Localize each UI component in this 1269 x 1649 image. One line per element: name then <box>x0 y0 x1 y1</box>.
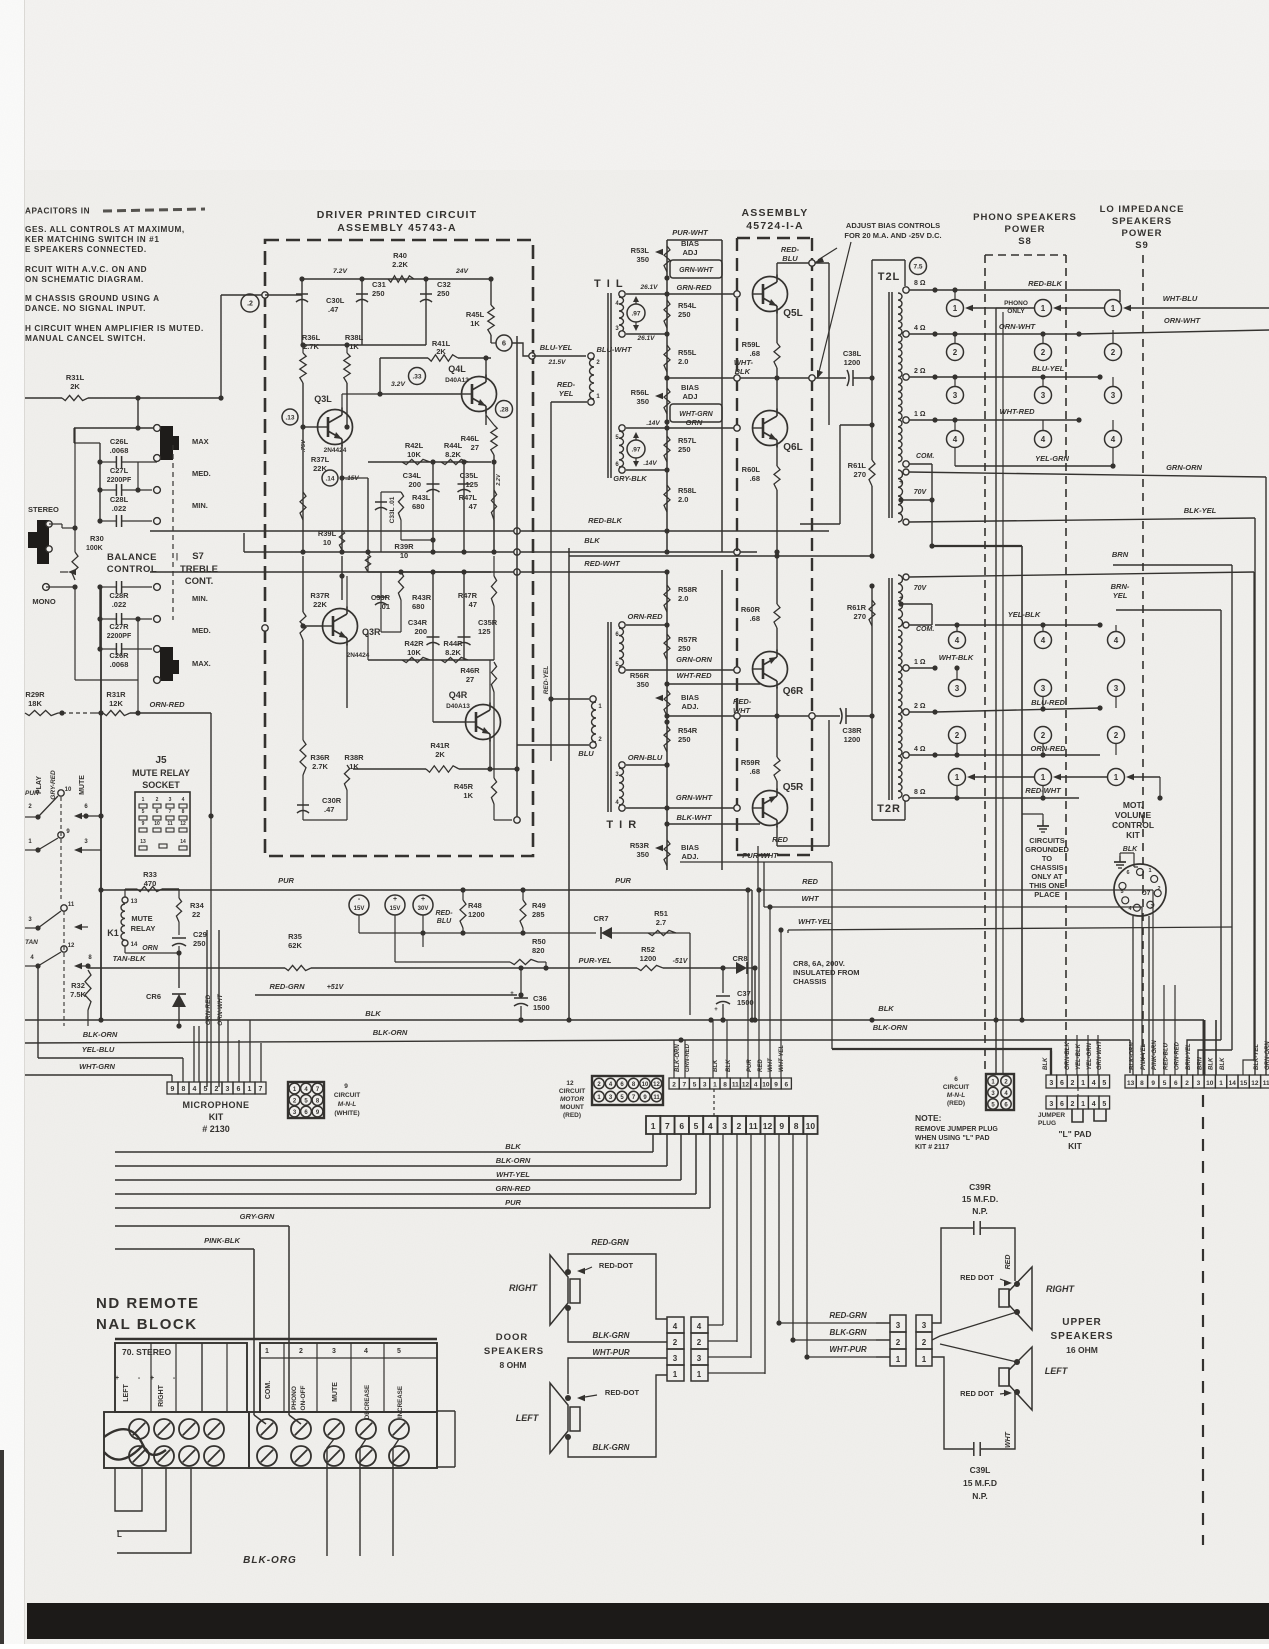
svg-text:C34R: C34R <box>408 618 428 627</box>
svg-text:RED-DOT: RED-DOT <box>599 1261 634 1270</box>
wire Q4L collector to 24V rail <box>485 358 487 377</box>
dashed link L-pad <box>1077 1088 1079 1096</box>
svg-text:RED-GRN: RED-GRN <box>270 982 306 991</box>
transistor Q6L <box>753 411 788 446</box>
svg-text:RED-BLK: RED-BLK <box>588 516 622 525</box>
svg-text:C27L: C27L <box>110 466 129 475</box>
svg-text:COM.: COM. <box>916 626 934 633</box>
svg-text:4: 4 <box>673 1322 678 1331</box>
svg-text:+: + <box>714 1007 718 1013</box>
svg-text:8: 8 <box>182 1086 186 1093</box>
svg-text:15 M.F.D: 15 M.F.D <box>963 1478 997 1488</box>
svg-text:R54R: R54R <box>678 726 698 735</box>
svg-text:ADJ.: ADJ. <box>681 852 698 861</box>
svg-text:RED DOT: RED DOT <box>960 1389 994 1398</box>
svg-text:5: 5 <box>1102 1101 1106 1108</box>
wire R61L bypass <box>869 422 874 427</box>
svg-text:3: 3 <box>697 1354 702 1363</box>
svg-text:R42L: R42L <box>405 441 424 450</box>
wire BLK thick to pin 10 <box>1203 1020 1206 1075</box>
svg-text:SOCKET: SOCKET <box>142 780 180 790</box>
svg-text:BLK-GRN: BLK-GRN <box>593 1331 630 1340</box>
switch contact 4 <box>35 963 40 968</box>
T2L primary wire <box>872 259 905 261</box>
svg-text:BLK-ORN: BLK-ORN <box>83 1030 118 1039</box>
svg-text:2: 2 <box>1071 1101 1075 1108</box>
svg-text:26.1V: 26.1V <box>640 284 659 291</box>
svg-text:Q5R: Q5R <box>783 782 804 793</box>
svg-text:RELAY: RELAY <box>131 924 156 933</box>
svg-text:BLK-YEL: BLK-YEL <box>1254 1044 1260 1070</box>
svg-text:R46L: R46L <box>461 434 480 443</box>
wire CR7 row <box>359 932 596 934</box>
svg-text:9: 9 <box>142 821 145 827</box>
wire driver-R output <box>262 625 268 631</box>
svg-text:1: 1 <box>896 1355 901 1364</box>
svg-text:R50: R50 <box>532 937 546 946</box>
svg-text:CHASSIS: CHASSIS <box>793 977 826 986</box>
terminal block header line <box>115 1338 437 1341</box>
svg-text:BLK-ORN: BLK-ORN <box>675 1044 681 1072</box>
svg-text:INCREASE: INCREASE <box>397 1386 404 1418</box>
T2R secondary winding <box>898 630 902 798</box>
door speaker RIGHT <box>550 1255 568 1325</box>
svg-text:CIRCUIT: CIRCUIT <box>943 1084 969 1091</box>
svg-text:1: 1 <box>265 1348 269 1355</box>
svg-text:PLACE: PLACE <box>1034 890 1059 899</box>
svg-text:R32: R32 <box>71 981 85 990</box>
svg-text:YEL-BLU: YEL-BLU <box>82 1045 115 1054</box>
svg-text:BLK: BLK <box>584 536 600 545</box>
svg-text:12: 12 <box>742 1082 750 1089</box>
svg-text:R58L: R58L <box>678 486 697 495</box>
svg-text:COM.: COM. <box>916 453 934 460</box>
svg-text:T I L: T I L <box>594 278 624 290</box>
svg-text:ONLY AT: ONLY AT <box>1031 872 1063 881</box>
svg-text:R51: R51 <box>654 909 668 918</box>
svg-text:15V: 15V <box>390 906 401 912</box>
svg-text:R40: R40 <box>393 251 407 260</box>
svg-text:BIAS: BIAS <box>681 693 699 702</box>
svg-text:R47R: R47R <box>458 591 478 600</box>
svg-text:.33: .33 <box>412 373 421 380</box>
ground symbol chassis <box>1042 820 1044 826</box>
svg-text:C32: C32 <box>437 280 451 289</box>
connector right strip 13 8 9 5 6 2 3 10 1 14 15 12 11 <box>1125 1075 1136 1088</box>
svg-text:GES. ALL CONTROLS AT MAXIMUM,: GES. ALL CONTROLS AT MAXIMUM, <box>25 225 185 234</box>
svg-text:R61L: R61L <box>848 461 867 470</box>
svg-text:C33L .01: C33L .01 <box>389 496 396 523</box>
svg-text:MIN.: MIN. <box>192 501 208 510</box>
svg-text:.0068: .0068 <box>110 446 129 455</box>
svg-text:BLU: BLU <box>578 749 594 758</box>
svg-text:250: 250 <box>678 644 691 653</box>
svg-text:11: 11 <box>68 902 75 908</box>
svg-text:R55L: R55L <box>678 348 697 357</box>
svg-text:R44L: R44L <box>444 441 463 450</box>
svg-text:BLK-GRN: BLK-GRN <box>830 1328 867 1337</box>
svg-text:14: 14 <box>1229 1080 1237 1087</box>
svg-text:RIGHT: RIGHT <box>1046 1284 1076 1294</box>
terminal screws right rows <box>257 1419 277 1439</box>
connector microphone kit 9-pin strip <box>167 1082 178 1094</box>
svg-text:.28: .28 <box>499 406 508 413</box>
svg-text:Q6L: Q6L <box>783 442 802 453</box>
switch contact 3 arrow <box>74 847 82 853</box>
svg-text:3: 3 <box>332 1348 336 1355</box>
svg-text:PUR-WHT: PUR-WHT <box>672 228 709 237</box>
relay K1 MUTE RELAY <box>122 897 128 903</box>
svg-text:4: 4 <box>364 1348 368 1355</box>
svg-text:ON SCHEMATIC DIAGRAM.: ON SCHEMATIC DIAGRAM. <box>25 275 144 284</box>
svg-text:8: 8 <box>723 1082 727 1089</box>
wire pin3 to ladder <box>626 764 667 766</box>
svg-text:R57R: R57R <box>678 635 698 644</box>
svg-text:4: 4 <box>1111 435 1116 444</box>
svg-text:820: 820 <box>532 946 545 955</box>
switch contact 1 to 9 <box>35 847 40 852</box>
svg-text:2: 2 <box>215 1086 219 1093</box>
svg-text:15: 15 <box>1240 1080 1248 1087</box>
svg-text:CONTROL: CONTROL <box>1112 820 1154 830</box>
svg-text:6: 6 <box>679 1121 684 1131</box>
svg-text:.022: .022 <box>112 600 127 609</box>
svg-text:BLK: BLK <box>1220 1057 1226 1070</box>
T2R core <box>888 578 890 800</box>
svg-text:250: 250 <box>372 289 385 298</box>
svg-text:YEL: YEL <box>559 389 574 398</box>
svg-text:TO: TO <box>1042 854 1052 863</box>
svg-text:BLK: BLK <box>1043 1057 1049 1070</box>
voltage circle -15V <box>349 895 369 915</box>
svg-text:INSULATED FROM: INSULATED FROM <box>793 968 860 977</box>
svg-text:S7: S7 <box>192 551 204 562</box>
wire Q6L emitter to R60L <box>776 445 778 466</box>
terminal block left box <box>115 1343 247 1412</box>
switch dashed linkage <box>60 797 62 900</box>
svg-text:13: 13 <box>140 839 146 845</box>
svg-text:1: 1 <box>1081 1101 1085 1108</box>
svg-text:7: 7 <box>259 1086 263 1093</box>
wire mic kit columns <box>171 1075 173 1082</box>
svg-text:BLK-ORN: BLK-ORN <box>373 1028 408 1037</box>
svg-text:2: 2 <box>1157 886 1160 892</box>
rail R42R R44R row <box>368 659 494 661</box>
svg-text:MICROPHONE: MICROPHONE <box>182 1100 249 1110</box>
svg-text:T2L: T2L <box>878 271 901 283</box>
svg-text:R31L: R31L <box>66 373 85 382</box>
ground MOT kit <box>1119 856 1121 862</box>
svg-text:1200: 1200 <box>640 954 657 963</box>
svg-text:R41R: R41R <box>430 741 450 750</box>
svg-text:BLK: BLK <box>365 1009 381 1018</box>
svg-text:13: 13 <box>1127 1080 1135 1087</box>
svg-text:4: 4 <box>697 1322 702 1331</box>
wire Q4L emitter down <box>485 411 487 425</box>
wire Q5R emitter up to R59R <box>776 781 778 790</box>
wire pin5 to Q6L base <box>626 427 737 429</box>
svg-text:RED-: RED- <box>781 245 800 254</box>
svg-text:47: 47 <box>469 600 477 609</box>
svg-text:RIGHT: RIGHT <box>509 1283 539 1293</box>
svg-text:ASSEMBLY 45743-A: ASSEMBLY 45743-A <box>337 222 457 234</box>
svg-text:R56R: R56R <box>630 671 650 680</box>
wires right corners down <box>1253 572 1255 1060</box>
wire Q6L emitter to BLK bus <box>776 490 778 552</box>
svg-text:1K: 1K <box>470 319 480 328</box>
svg-text:+51V: +51V <box>327 984 345 991</box>
svg-text:R36L: R36L <box>302 333 321 342</box>
circle grid bottom row3 <box>949 680 966 697</box>
svg-text:15V: 15V <box>354 906 365 912</box>
svg-text:680: 680 <box>412 502 425 511</box>
svg-text:2.0: 2.0 <box>678 594 688 603</box>
svg-text:BLU-YEL: BLU-YEL <box>540 343 573 352</box>
svg-text:1K: 1K <box>463 791 473 800</box>
svg-text:KIT: KIT <box>209 1112 224 1122</box>
svg-text:10: 10 <box>154 821 160 827</box>
svg-text:10K: 10K <box>407 648 421 657</box>
svg-text:KIT # 2117: KIT # 2117 <box>915 1144 949 1151</box>
svg-text:DANCE. NO SIGNAL INPUT.: DANCE. NO SIGNAL INPUT. <box>25 304 146 313</box>
svg-text:PHONO SPEAKERS: PHONO SPEAKERS <box>973 212 1077 223</box>
wire ORN-RED vertical <box>206 930 208 1087</box>
svg-text:CIRCUITS: CIRCUITS <box>1029 836 1064 845</box>
svg-text:BRN: BRN <box>1112 550 1129 559</box>
svg-text:350: 350 <box>636 850 649 859</box>
terminal block right edge stub <box>436 1339 438 1343</box>
svg-text:WHT: WHT <box>1005 1431 1012 1448</box>
wire BLK long <box>244 547 569 549</box>
svg-text:WHT-RED: WHT-RED <box>1000 407 1036 416</box>
svg-text:680: 680 <box>412 602 425 611</box>
svg-text:WHT-RED: WHT-RED <box>677 671 713 680</box>
svg-text:MONO: MONO <box>32 597 55 606</box>
circle grid row2 <box>947 344 964 361</box>
svg-text:125: 125 <box>478 627 491 636</box>
svg-text:3: 3 <box>955 684 960 693</box>
svg-text:2: 2 <box>1114 731 1119 740</box>
svg-text:WHT-YEL: WHT-YEL <box>496 1170 530 1179</box>
node .14 circle <box>322 470 338 486</box>
svg-text:"L" PAD: "L" PAD <box>1059 1129 1092 1139</box>
svg-text:GRN-WHT: GRN-WHT <box>676 793 714 802</box>
svg-text:RED-YEL: RED-YEL <box>543 666 550 695</box>
svg-text:TAN: TAN <box>25 939 38 946</box>
svg-text:250: 250 <box>193 939 206 948</box>
svg-text:C35L: C35L <box>460 471 479 480</box>
resistor ladder column x667 <box>666 240 668 552</box>
svg-text:ADJUST BIAS CONTROLS: ADJUST BIAS CONTROLS <box>846 221 940 230</box>
svg-text:POWER: POWER <box>1122 228 1163 239</box>
svg-text:R36R: R36R <box>310 753 330 762</box>
svg-text:RED-GRN: RED-GRN <box>829 1311 867 1320</box>
switch contact 9 <box>58 832 64 838</box>
svg-text:.68: .68 <box>750 349 760 358</box>
svg-text:350: 350 <box>636 397 649 406</box>
svg-text:RED-WHT: RED-WHT <box>1025 786 1062 795</box>
transformer T1L lower winding pins 5,6 <box>619 425 625 431</box>
circle grid bottom row2 <box>949 727 966 744</box>
svg-text:-51V: -51V <box>673 958 689 965</box>
svg-text:C28R: C28R <box>109 591 129 600</box>
wire PUR-WHT lower <box>680 861 832 863</box>
svg-text:FOR 20 M.A. AND -25V D.C.: FOR 20 M.A. AND -25V D.C. <box>844 231 941 240</box>
svg-text:2 Ω: 2 Ω <box>914 368 926 375</box>
wire mid BLK bus in driver <box>244 551 757 553</box>
svg-text:350: 350 <box>636 680 649 689</box>
svg-text:2.2V: 2.2V <box>496 473 502 487</box>
svg-text:11: 11 <box>749 1121 758 1131</box>
svg-text:10: 10 <box>400 551 408 560</box>
svg-text:Q4R: Q4R <box>449 690 468 700</box>
svg-text:2 Ω: 2 Ω <box>914 703 926 710</box>
svg-text:7: 7 <box>682 1082 686 1089</box>
svg-text:1: 1 <box>953 304 958 313</box>
transformer T1R core <box>607 622 609 812</box>
svg-text:.2: .2 <box>247 301 253 308</box>
svg-text:6: 6 <box>237 1086 241 1093</box>
svg-text:2: 2 <box>156 797 159 803</box>
wires below big strip <box>722 1134 724 1325</box>
svg-text:R37R: R37R <box>310 591 330 600</box>
svg-text:TREBLE: TREBLE <box>180 564 218 575</box>
svg-text:270: 270 <box>853 612 866 621</box>
svg-text:R38L: R38L <box>345 333 364 342</box>
svg-text:10: 10 <box>806 1121 816 1131</box>
svg-text:6: 6 <box>954 1076 958 1083</box>
svg-text:GRN-ORN: GRN-ORN <box>1265 1041 1269 1070</box>
svg-text:DOOR: DOOR <box>496 1332 529 1343</box>
wire GRN-RED pin4 to Q5L <box>626 293 737 295</box>
svg-text:3: 3 <box>1041 391 1046 400</box>
svg-text:11: 11 <box>732 1082 739 1089</box>
svg-text:RED-WHT: RED-WHT <box>584 559 621 568</box>
svg-text:.47: .47 <box>324 805 334 814</box>
svg-text:R46R: R46R <box>460 666 480 675</box>
svg-text:BLU: BLU <box>437 918 452 925</box>
connector door 4-pin boxes <box>667 1317 684 1333</box>
svg-text:BLK-ORN: BLK-ORN <box>873 1023 908 1032</box>
svg-text:C29: C29 <box>193 930 207 939</box>
transformer T1L secondary winding pins 2,1 <box>588 353 594 359</box>
svg-text:R34: R34 <box>190 901 205 910</box>
wire pin1 from RED-YEL <box>551 698 589 700</box>
svg-text:ORN-WHT: ORN-WHT <box>217 993 224 1025</box>
svg-text:RCUIT WITH A.V.C. ON AND: RCUIT WITH A.V.C. ON AND <box>25 265 147 274</box>
svg-text:8.2K: 8.2K <box>445 450 461 459</box>
svg-text:R59L: R59L <box>742 340 761 349</box>
svg-text:S8: S8 <box>1018 236 1032 247</box>
svg-text:RED: RED <box>802 877 818 886</box>
svg-text:MUTE RELAY: MUTE RELAY <box>132 768 190 778</box>
svg-text:PUR-YEL: PUR-YEL <box>579 956 612 965</box>
svg-text:3: 3 <box>1041 684 1046 693</box>
svg-text:E SPEAKERS CONNECTED.: E SPEAKERS CONNECTED. <box>25 245 147 254</box>
svg-text:BLK: BLK <box>878 1004 894 1013</box>
svg-text:BLK: BLK <box>1123 846 1138 853</box>
connector big strip 1 7 6 5 4 3 2 11 12 9 8 10 <box>646 1116 660 1134</box>
svg-text:ASSEMBLY: ASSEMBLY <box>742 207 809 219</box>
svg-text:6: 6 <box>156 809 159 815</box>
svg-text:270: 270 <box>853 470 866 479</box>
node .33 circle <box>409 368 426 385</box>
svg-text:MED.: MED. <box>192 626 211 635</box>
switch contact 3b <box>35 925 40 930</box>
svg-text:GRN: GRN <box>686 418 703 427</box>
svg-text:# 2130: # 2130 <box>202 1124 230 1134</box>
svg-text:MOT.: MOT. <box>1123 800 1143 810</box>
svg-text:C39L: C39L <box>970 1465 991 1475</box>
svg-text:GRN-ORN: GRN-ORN <box>1166 463 1202 472</box>
svg-text:6: 6 <box>1060 1101 1064 1108</box>
connector upper speaker boxes <box>890 1315 906 1332</box>
svg-text:SPEAKERS: SPEAKERS <box>1050 1331 1113 1342</box>
svg-text:R56L: R56L <box>631 388 650 397</box>
svg-text:ORN-BLU: ORN-BLU <box>628 753 663 762</box>
svg-text:3: 3 <box>673 1354 678 1363</box>
svg-text:1: 1 <box>922 1355 927 1364</box>
svg-text:1: 1 <box>1041 304 1046 313</box>
svg-text:BLK-ORG: BLK-ORG <box>243 1555 297 1566</box>
svg-text:2: 2 <box>737 1121 742 1131</box>
wire R60 join bottom <box>666 870 668 880</box>
svg-text:3: 3 <box>1114 684 1119 693</box>
ladder column R x667 <box>666 570 668 870</box>
svg-text:ADJ.: ADJ. <box>681 702 698 711</box>
svg-text:R39R: R39R <box>394 542 414 551</box>
svg-text:10: 10 <box>323 538 331 547</box>
svg-text:RED-BLK: RED-BLK <box>1028 279 1062 288</box>
svg-text:R43L: R43L <box>412 493 431 502</box>
svg-text:NOTE:: NOTE: <box>915 1113 942 1123</box>
svg-text:2: 2 <box>1111 348 1116 357</box>
wires upper common <box>932 1312 1017 1340</box>
svg-text:RIGHT: RIGHT <box>158 1384 165 1407</box>
svg-text:ORN-WHT: ORN-WHT <box>1164 316 1202 325</box>
svg-text:6: 6 <box>502 339 506 348</box>
svg-text:1 Ω: 1 Ω <box>914 411 926 418</box>
svg-text:5: 5 <box>397 1348 401 1355</box>
voltage circle +15V <box>385 895 405 915</box>
svg-text:WHT: WHT <box>768 1057 774 1072</box>
connector 12-strip 2 7 5 3 1 8 11 12 4 10 9 6 <box>669 1078 679 1089</box>
svg-text:R44R: R44R <box>443 639 463 648</box>
svg-text:350: 350 <box>636 255 649 264</box>
S7 dashed link <box>172 445 174 620</box>
svg-text:R57L: R57L <box>678 436 697 445</box>
svg-text:R58R: R58R <box>678 585 698 594</box>
svg-text:70. STEREO: 70. STEREO <box>122 1347 172 1357</box>
svg-text:T I R: T I R <box>606 819 637 831</box>
solid box around ladder <box>667 239 722 241</box>
transistor Q6R <box>753 652 788 687</box>
wire feedback vertical <box>367 478 369 552</box>
svg-text:C36: C36 <box>533 994 547 1003</box>
svg-text:5: 5 <box>142 809 145 815</box>
svg-text:4 Ω: 4 Ω <box>914 746 926 753</box>
svg-text:Q3R: Q3R <box>362 627 381 637</box>
rail R42L R44L row <box>368 461 491 463</box>
svg-text:1: 1 <box>1111 304 1116 313</box>
transistor Q5R <box>753 791 788 826</box>
svg-text:4: 4 <box>953 435 958 444</box>
svg-text:JUMPER: JUMPER <box>1038 1112 1065 1119</box>
svg-text:YEL-BLK: YEL-BLK <box>1008 610 1041 619</box>
circle grid row3 <box>947 387 964 404</box>
T2R 70V winding <box>898 575 903 627</box>
terminal screws box <box>249 1412 437 1468</box>
